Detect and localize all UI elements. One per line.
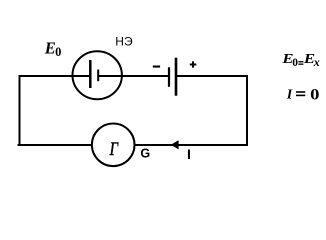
wire: right vertical [246, 75, 248, 146]
svg-text:НЭ: НЭ [115, 35, 133, 49]
svg-text:I: I [286, 87, 293, 102]
battery plus sign [190, 61, 197, 67]
equation E0 = Ex [281, 52, 320, 69]
svg-text:0: 0 [310, 86, 319, 103]
svg-text:0: 0 [292, 57, 298, 69]
equation I = 0 [286, 86, 320, 103]
svg-text:Г: Г [109, 139, 119, 160]
battery: short (minus) plate [168, 67, 170, 87]
standard cell НЭ: long plate [89, 60, 92, 88]
svg-text:x: x [313, 55, 320, 69]
wire: left vertical [19, 75, 21, 146]
battery: long (plus) plate [175, 58, 178, 96]
standard cell НЭ: short plate [97, 70, 99, 82]
wire: top, standard cell to battery minus plate [99, 75, 169, 77]
svg-text:0: 0 [55, 45, 61, 59]
battery minus sign [153, 66, 160, 68]
svg-text:G: G [140, 147, 150, 161]
svg-text:I: I [187, 146, 191, 162]
wire: bottom, right corner to galvanometer [134, 144, 248, 146]
wire: top, battery plus plate to top-right corner [176, 75, 248, 77]
wire: bottom, galvanometer to left corner [18, 144, 93, 146]
wire: top, left corner to standard cell [19, 75, 90, 77]
galvanometer: circle outline [92, 124, 135, 167]
svg-text:E: E [44, 38, 56, 57]
standard cell НЭ: circle outline [73, 51, 122, 99]
current arrow head on bottom wire [171, 140, 179, 149]
